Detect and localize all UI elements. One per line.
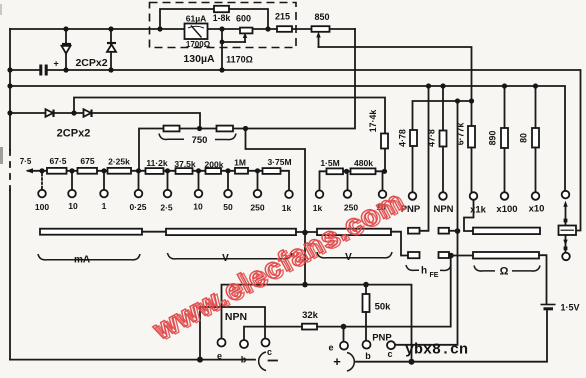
PNP terminal e [343, 327, 345, 342]
svg-text:61µA: 61µA [186, 14, 207, 24]
svg-text:215: 215 [275, 12, 290, 22]
svg-text:10: 10 [68, 201, 78, 211]
resistor 890 [488, 86, 509, 192]
hFE contact PNP row1 [408, 228, 420, 234]
svg-text:www.elecfans.com: www.elecfans.com [147, 185, 409, 347]
potentiometer 850 [312, 12, 330, 47]
svg-text:200k: 200k [205, 160, 224, 170]
resistor 480k [351, 168, 376, 174]
switch bar ohm 2 [473, 252, 539, 259]
svg-text:10: 10 [193, 202, 203, 212]
svg-text:V: V [345, 252, 352, 263]
svg-text:47·8: 47·8 [427, 129, 437, 147]
svg-text:2CPx2: 2CPx2 [57, 128, 91, 140]
NPN terminal b [240, 340, 248, 348]
svg-text:600: 600 [236, 14, 251, 24]
wire 750 row and riser to 850 [139, 29, 355, 171]
diode D1 2CP [62, 29, 72, 70]
svg-text:250: 250 [250, 203, 264, 213]
wire top bus y29 [10, 28, 355, 30]
bracket V right [317, 252, 392, 258]
bracket hFE [406, 265, 419, 270]
meter movement 61uA [185, 24, 208, 40]
wire hFE common vertical A [395, 101, 458, 345]
chain tap arrow 7.5 [26, 168, 34, 173]
wire y101 link line [413, 101, 472, 192]
svg-text:2·5: 2·5 [160, 203, 173, 213]
svg-text:1·5V: 1·5V [560, 303, 579, 313]
svg-text:h: h [421, 266, 427, 277]
svg-text:17·4k: 17·4k [368, 110, 378, 133]
wire V2 chain 1.5M 480k [320, 171, 385, 190]
bracket V left [168, 253, 293, 259]
resistor 1.8k [214, 6, 229, 12]
wire x1k jog to ohm bar [464, 200, 474, 231]
resistor 1M [235, 168, 248, 174]
svg-text:NPN: NPN [433, 204, 453, 215]
svg-text:mA: mA [74, 255, 90, 266]
svg-text:67·5: 67·5 [49, 156, 66, 166]
svg-text:1k: 1k [282, 203, 292, 213]
svg-text:3·75M: 3·75M [267, 157, 291, 167]
svg-text:1: 1 [102, 201, 107, 211]
probe plus [347, 353, 354, 372]
svg-text:ybx8.cn: ybx8.cn [405, 342, 468, 359]
wire mA-V resistor chain y171 [28, 171, 289, 191]
resistor 2.25k [108, 168, 132, 174]
wire diode row y113 [10, 113, 200, 129]
svg-text:4·78: 4·78 [398, 129, 408, 147]
wire bar V to hFE PNP contact [391, 232, 408, 256]
ohm-adjust wiper arrow up [563, 201, 567, 207]
wire bus B y86 [10, 86, 565, 191]
wire left bus x10 [9, 29, 11, 150]
svg-text:11·2k: 11·2k [146, 158, 168, 168]
resistor 47.8 [427, 86, 447, 192]
svg-text:130µA: 130µA [183, 53, 215, 65]
svg-text:c: c [267, 347, 272, 357]
bracket 750 [159, 134, 184, 140]
svg-text:+: + [54, 59, 59, 69]
wire bar link 1 [142, 231, 166, 233]
terminal circles row [38, 190, 539, 200]
hFE contact NPN row1 [439, 228, 450, 234]
svg-text:Ω: Ω [500, 266, 509, 278]
bracket ohm [474, 266, 495, 272]
bracket mA [38, 254, 140, 260]
wire NPN row1 contact stub [449, 230, 458, 232]
diode D3 2CP [46, 109, 54, 117]
resistor 80 [519, 86, 540, 192]
svg-text:50k: 50k [375, 302, 392, 313]
PNP terminal b [363, 341, 371, 349]
resistor 67.5 [47, 168, 67, 174]
svg-text:850: 850 [314, 12, 329, 22]
svg-text:1k: 1k [313, 203, 323, 213]
svg-text:750: 750 [192, 135, 208, 146]
svg-text:+: + [333, 354, 341, 369]
svg-text:1·5M: 1·5M [320, 158, 339, 168]
switch bar V left [166, 229, 296, 235]
svg-text:b: b [241, 355, 247, 365]
svg-text:7·5: 7·5 [20, 157, 32, 166]
resistor 3.75M [263, 168, 281, 174]
wire e riser and y285 line [222, 285, 412, 362]
wire ohm bar2 to battery [539, 255, 547, 304]
potentiometer 600 [236, 14, 253, 43]
wire NPN row2 contact to ohm bar2 [449, 255, 473, 257]
scan edge marks [0, 147, 3, 164]
svg-text:50: 50 [223, 202, 233, 212]
PNP terminal c [387, 341, 395, 349]
svg-text:2·25k: 2·25k [108, 157, 130, 167]
resistor 17.4k [381, 134, 388, 149]
chain1 tap stubs to terminals [41, 174, 43, 189]
NPN socket box [200, 307, 265, 360]
svg-text:2CPx2: 2CPx2 [75, 57, 107, 69]
ohm-adjust bottom terminal [562, 253, 570, 261]
resistor 1.5M [327, 168, 344, 174]
diode D4 2CP [84, 109, 92, 117]
resistor 4.78 [398, 129, 418, 147]
svg-text:V: V [222, 253, 229, 264]
resistor 37.5k [176, 168, 193, 174]
switch bar ohm 1 [473, 228, 540, 235]
wire bus A y70 [10, 69, 39, 71]
resistor 675 [78, 168, 98, 174]
wire plus wire [356, 310, 547, 362]
svg-text:e: e [328, 343, 333, 353]
ohm-adjust branch top terminal [562, 191, 570, 199]
NPN terminal c [262, 339, 270, 347]
rheostat box [559, 226, 577, 236]
resistor 11.2k [146, 168, 164, 174]
wire meter shunt tap [221, 29, 223, 70]
svg-text:37.5k: 37.5k [174, 159, 196, 169]
svg-text:e: e [217, 351, 222, 361]
terminal labels [35, 201, 386, 213]
svg-text:x100: x100 [496, 204, 517, 215]
ohm-adjust wiper arrow down [565, 235, 567, 252]
wire 32k line with b riser [244, 256, 451, 340]
resistor 32k [302, 324, 317, 330]
svg-text:480k: 480k [354, 158, 373, 168]
svg-text:32k: 32k [302, 310, 319, 321]
svg-text:1700Ω: 1700Ω [186, 40, 211, 49]
probe minus [259, 352, 266, 371]
resistor 215 [277, 26, 292, 32]
dashed meter compartment box [150, 3, 297, 48]
svg-text:890: 890 [488, 131, 498, 146]
svg-text:0·25: 0·25 [129, 202, 146, 212]
svg-text:b: b [365, 351, 371, 361]
svg-text:1M: 1M [234, 158, 246, 168]
hFE contact NPN row2 [439, 252, 450, 258]
resistor 200k [206, 168, 222, 174]
wire bus B to hFE PNP row1 contact [421, 86, 429, 231]
wire 17.4k lower lead [384, 149, 386, 172]
svg-text:x1k: x1k [470, 205, 487, 216]
resistor 6.77k [471, 101, 473, 126]
svg-text:1170Ω: 1170Ω [226, 55, 253, 65]
wire bar link 2 [296, 231, 317, 233]
svg-text:FE: FE [430, 272, 439, 279]
svg-text:675: 675 [80, 156, 94, 166]
svg-text:80: 80 [519, 133, 529, 143]
wire 750 to V-switch link [246, 129, 306, 285]
wire bottom minus wire [10, 359, 255, 361]
svg-text:1-8k: 1-8k [213, 13, 231, 23]
svg-text:x10: x10 [529, 204, 545, 215]
wire 1.8k top loop [160, 9, 268, 29]
wire bus C y97.5 [74, 98, 385, 134]
switch bar mA [40, 229, 142, 235]
resistor chain 750 [164, 126, 180, 132]
capacitor C1 [41, 59, 59, 76]
svg-text:c: c [387, 349, 392, 359]
resistor 50k [365, 285, 367, 294]
svg-text:100: 100 [35, 202, 49, 212]
NPN terminal e [218, 339, 226, 347]
diode D2 2CP [107, 29, 116, 70]
wire 850 wiper to hfe bus [319, 47, 472, 101]
chain2 tap stubs [348, 171, 383, 190]
battery 1.5V [541, 303, 580, 313]
hFE contact PNP row2 [408, 252, 420, 258]
switch bar V right [317, 229, 391, 235]
watermark elecfans [147, 185, 412, 348]
